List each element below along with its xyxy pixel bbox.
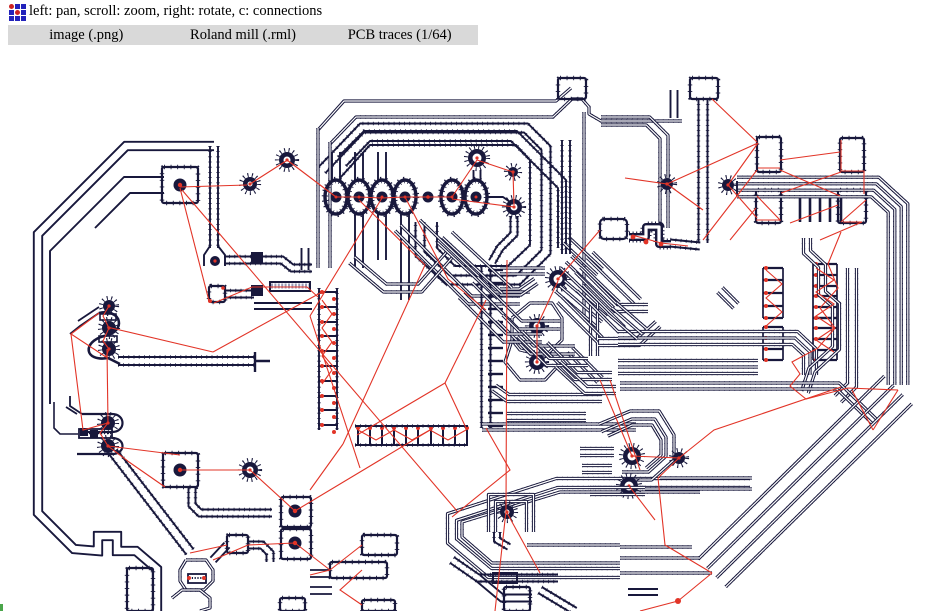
wire left loop	[34, 142, 214, 611]
airwire	[445, 383, 467, 430]
airwire	[71, 306, 109, 357]
pad oval6	[465, 180, 487, 214]
wire ring via C	[512, 303, 562, 356]
wire pennant tail	[527, 543, 620, 546]
wire cross hooks BR	[248, 542, 274, 563]
pad BR1	[281, 497, 311, 527]
airwire	[452, 199, 514, 207]
airwire	[108, 446, 180, 455]
airwire	[790, 232, 898, 399]
airwire	[506, 511, 540, 573]
wire stair A	[395, 225, 520, 304]
pad NE rrect	[600, 219, 627, 239]
wire ringNE drop	[489, 216, 518, 264]
airwire	[180, 188, 209, 301]
airwire	[629, 486, 655, 520]
wire stair S5	[598, 321, 660, 345]
pad dot	[423, 192, 434, 203]
wire right bus	[737, 177, 908, 385]
wire C2 link	[189, 487, 273, 517]
wire ladder west rail R	[335, 288, 338, 430]
junction T	[255, 352, 270, 372]
wire stair S8	[556, 361, 616, 393]
via C1	[527, 316, 547, 336]
wire pennant stub	[494, 532, 511, 550]
airwire	[610, 380, 640, 470]
airwire	[632, 235, 688, 246]
wire loop contour4	[95, 193, 164, 228]
pad bell	[210, 256, 220, 266]
wire mid drop	[210, 146, 218, 248]
wire c row427	[482, 424, 636, 430]
wire se octagon inner	[608, 425, 661, 468]
airwire	[703, 170, 757, 240]
wire se west1	[580, 449, 614, 456]
airwire	[667, 143, 758, 184]
wire bus L2	[330, 99, 682, 144]
wire loop contour3	[50, 177, 164, 404]
pad stub top	[558, 78, 586, 99]
wire stair S6	[459, 292, 542, 342]
airwire	[71, 334, 108, 446]
wire bus L3	[338, 131, 566, 254]
wire hook link	[210, 543, 229, 563]
wire via link	[505, 340, 558, 380]
pad stem top	[690, 78, 718, 99]
wire loop inner end	[54, 402, 78, 434]
airwire	[336, 197, 452, 198]
airwire	[758, 167, 780, 169]
wire bottom slant	[450, 557, 558, 581]
airwire	[730, 208, 756, 240]
airwire	[358, 430, 466, 440]
wire stair S3	[543, 343, 613, 380]
pad small sq	[209, 286, 225, 302]
wire oval up1	[332, 152, 340, 181]
wire east jog	[802, 238, 840, 393]
wire V shape	[349, 251, 453, 292]
airwire	[250, 470, 295, 511]
wire diag end1	[620, 545, 692, 548]
wire stair NE4	[587, 252, 641, 305]
pad S1	[757, 137, 781, 172]
airwire	[182, 190, 457, 511]
pad rect2	[330, 562, 387, 578]
wire preladder pair	[302, 248, 309, 270]
wire diag end2	[620, 556, 700, 559]
airwire	[213, 545, 248, 560]
cluster NE blobs	[629, 227, 671, 246]
airwire	[495, 260, 507, 611]
wire bell east pair	[670, 240, 701, 250]
airwire	[841, 200, 866, 222]
via SE2	[618, 475, 640, 497]
airwire	[190, 545, 227, 553]
red corner dots	[208, 286, 225, 303]
airwire	[756, 196, 780, 220]
airwire	[600, 380, 632, 456]
airwire	[357, 383, 445, 435]
wire diag pair BL	[109, 449, 193, 554]
airwire	[873, 390, 898, 430]
wire stair NE	[561, 256, 620, 314]
airwire	[295, 430, 430, 511]
airwire	[790, 205, 838, 223]
pad oval4	[394, 180, 416, 214]
airwire	[781, 172, 841, 193]
wire west v1	[316, 128, 319, 268]
wire octagon ring	[319, 124, 551, 285]
airwire	[248, 543, 295, 545]
connector ladder R3	[813, 316, 837, 362]
pad LL1	[100, 319, 118, 337]
airwire	[728, 185, 757, 218]
wire oval drop3	[401, 214, 409, 300]
wire bell east	[224, 257, 312, 272]
airwire	[679, 387, 841, 458]
airwire	[214, 287, 318, 303]
wire LL hooks	[70, 307, 120, 364]
connector ladder R4	[763, 325, 783, 362]
airwire	[250, 161, 286, 184]
wire ladder south rail bot	[355, 443, 468, 446]
wire se west3	[590, 488, 645, 495]
wire oval drop2	[378, 214, 386, 260]
wire east bus2	[618, 361, 758, 374]
wire c diagA2	[438, 237, 503, 298]
via small NE	[506, 165, 520, 179]
airwire	[852, 390, 873, 430]
wire stair S2	[497, 315, 575, 354]
airwire	[180, 469, 250, 471]
airwire	[537, 281, 558, 326]
wire oval up3	[378, 152, 386, 181]
wire sun link	[474, 170, 481, 181]
via C0	[547, 268, 569, 290]
pad hook sq	[227, 535, 248, 553]
airwire	[452, 160, 477, 197]
airwire	[310, 570, 330, 575]
pad S3	[756, 190, 781, 223]
connector ladder R1	[763, 266, 783, 320]
pad oval3	[371, 180, 393, 214]
airwire	[625, 178, 667, 184]
wire stair S9	[576, 268, 649, 312]
via SE1	[621, 445, 643, 467]
pad oval5	[441, 180, 463, 214]
pad rect1	[362, 535, 397, 555]
airwire	[330, 545, 362, 570]
pad BR2	[281, 529, 311, 559]
wire br stub	[628, 589, 658, 595]
airwire	[477, 160, 514, 205]
wire ladder south rail top	[355, 424, 468, 427]
wire bus hook	[736, 181, 738, 196]
connector ladder west rungs	[318, 290, 338, 434]
airwire	[445, 300, 486, 383]
connector column stubs	[488, 270, 503, 426]
airwire	[108, 446, 165, 487]
via pennant	[498, 503, 516, 521]
wire east diag	[718, 288, 739, 309]
airwire	[107, 327, 213, 352]
airwire	[780, 170, 840, 196]
wire bus L4	[346, 141, 558, 248]
airwire	[405, 197, 486, 310]
airwire	[310, 444, 343, 490]
via V2	[277, 150, 297, 170]
wire LL east	[118, 357, 255, 365]
wire big diagonal	[698, 376, 911, 587]
wire east bus1	[618, 332, 817, 376]
wire stair NE5	[577, 285, 625, 333]
wire pennant sq	[489, 495, 534, 533]
wire stub riser	[671, 90, 678, 118]
wire c row417	[506, 414, 586, 421]
hint text	[29, 3, 322, 20]
airwire	[310, 316, 360, 468]
wire se octagon	[599, 411, 675, 480]
wire east vpair	[835, 268, 857, 402]
wire ladder west rail L	[317, 288, 320, 430]
wire oct east extra	[562, 140, 570, 254]
wire row2 east	[225, 291, 254, 298]
wire se east pair	[660, 476, 752, 479]
wire row386	[620, 383, 876, 423]
wire LL2 eshape	[66, 396, 123, 454]
trace hatch LL2	[79, 428, 112, 438]
pad S2	[840, 138, 864, 172]
wire stair S1	[472, 277, 560, 329]
airwire	[452, 428, 510, 517]
wire oval drop1	[355, 214, 363, 268]
connector bus teeth	[800, 198, 841, 222]
wire bus L2 drop	[582, 112, 585, 316]
wire c row398	[492, 385, 602, 401]
via V1	[241, 175, 259, 193]
wire hex pad BL	[180, 560, 213, 590]
airwire	[658, 478, 712, 573]
pad S4	[838, 190, 866, 223]
wire mid drop flare L	[204, 246, 210, 266]
wire top bus east	[601, 117, 668, 228]
airwire	[213, 292, 322, 352]
wire mid drop flare R	[218, 246, 225, 266]
airwire	[632, 456, 679, 458]
wire bottom exit	[538, 587, 577, 611]
via C2	[527, 352, 547, 372]
wire stair S4	[558, 298, 603, 343]
junction cross A	[251, 252, 263, 263]
trace hatch LL1a	[100, 314, 116, 320]
wire octagon ring inner	[340, 145, 530, 266]
airwire	[816, 268, 834, 352]
via LL top	[101, 298, 117, 314]
wire stair NE3	[607, 303, 646, 340]
wire c diagA3	[452, 232, 512, 288]
pad C2 square	[163, 453, 198, 487]
wire c vertE	[591, 303, 598, 356]
pad oval2	[348, 180, 370, 214]
trace hatch mid	[270, 282, 310, 291]
airwire	[667, 184, 703, 210]
airwire	[841, 140, 864, 194]
pad C1 square	[162, 167, 198, 203]
wire c row270	[500, 268, 545, 274]
airwire	[310, 198, 382, 316]
airwire	[343, 200, 425, 444]
airwire	[287, 160, 336, 197]
airwire	[180, 185, 247, 187]
wire pennant inner	[462, 492, 700, 563]
via NE b	[720, 177, 736, 193]
pad rect4	[127, 568, 153, 611]
connector ladder south rungs	[356, 426, 469, 445]
fab modules logo icon	[9, 4, 26, 21]
airwire	[728, 143, 758, 185]
via LL2a	[99, 414, 117, 432]
wire se west2	[582, 466, 612, 473]
wire bottom slant2	[476, 575, 532, 601]
airwire	[322, 300, 332, 384]
wire bus L1	[318, 88, 571, 130]
pad LL2	[100, 340, 118, 358]
wire c diagE	[555, 281, 606, 328]
airwire	[558, 230, 600, 279]
pad rect3	[362, 600, 395, 611]
airwire	[295, 543, 330, 570]
airwire	[678, 573, 712, 601]
airwire	[640, 601, 678, 611]
trace hatch3	[187, 574, 206, 583]
via LL2b	[99, 437, 117, 455]
wire oval up2	[355, 152, 363, 181]
airwire	[780, 152, 840, 160]
wire c row292	[500, 279, 538, 296]
pad sq bottom	[504, 587, 530, 611]
airwire	[340, 570, 362, 605]
via NE a	[659, 176, 675, 192]
wire pennant	[448, 479, 751, 578]
via BL	[240, 460, 260, 480]
connector ladder R2	[813, 262, 837, 320]
airwire	[712, 99, 757, 142]
wire oval6 hook	[487, 197, 513, 204]
trace hatch2	[493, 573, 517, 583]
wire stair NE2	[563, 237, 602, 275]
wire hex pad BL2	[172, 590, 210, 611]
red dot	[675, 598, 681, 604]
wire column	[482, 266, 491, 428]
toolbar	[8, 25, 478, 45]
airwire	[107, 349, 108, 423]
wire stair B	[420, 220, 530, 292]
airwire	[536, 326, 538, 362]
green speck	[0, 604, 3, 611]
wire stair S7	[518, 332, 589, 366]
pad oval1	[325, 180, 347, 214]
wire diag end3	[620, 571, 712, 574]
pad ring NE	[504, 197, 524, 217]
trace hatch LL1b	[99, 336, 117, 342]
wire row3 east	[254, 303, 312, 309]
airwire	[820, 222, 862, 240]
via sun top	[466, 147, 488, 169]
airwire	[658, 458, 679, 478]
via SE3	[671, 450, 687, 466]
wire left hooks	[310, 570, 332, 594]
wire c stairE	[568, 348, 603, 383]
junction cross B	[251, 285, 263, 296]
wire stem	[699, 99, 708, 243]
wire se east pair2	[645, 487, 752, 490]
pad rect5	[280, 598, 305, 611]
wire west v2	[328, 142, 331, 268]
airwire	[766, 270, 782, 326]
